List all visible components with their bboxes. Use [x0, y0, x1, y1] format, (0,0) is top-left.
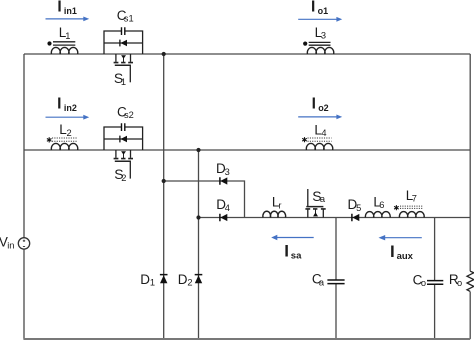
svg-text:D: D: [140, 272, 150, 287]
svg-text:s2: s2: [124, 110, 134, 120]
svg-text:I: I: [390, 242, 395, 261]
svg-text:5: 5: [356, 203, 361, 213]
svg-text:I: I: [284, 242, 289, 261]
svg-text:o: o: [457, 278, 462, 288]
svg-text:4: 4: [321, 128, 326, 138]
svg-text:7: 7: [412, 194, 417, 204]
svg-text:2: 2: [121, 173, 126, 183]
svg-text:I: I: [312, 96, 316, 113]
svg-text:2: 2: [187, 278, 192, 288]
svg-text:s1: s1: [124, 14, 134, 24]
svg-text:sa: sa: [291, 251, 302, 262]
svg-text:1: 1: [121, 77, 126, 87]
svg-text:aux: aux: [397, 251, 414, 262]
svg-text:in: in: [7, 240, 14, 250]
svg-text:3: 3: [225, 167, 230, 177]
svg-text:a: a: [319, 277, 325, 287]
svg-text:3: 3: [321, 31, 326, 41]
svg-text:I: I: [311, 0, 315, 15]
svg-text:in1: in1: [64, 6, 77, 16]
svg-text:2: 2: [67, 128, 72, 138]
svg-text:a: a: [320, 194, 326, 204]
svg-text:o2: o2: [318, 103, 329, 113]
svg-text:1: 1: [65, 31, 70, 41]
svg-text:o1: o1: [318, 6, 329, 16]
svg-text:4: 4: [225, 203, 230, 213]
svg-text:r: r: [278, 200, 281, 210]
svg-text:I: I: [57, 95, 61, 112]
svg-text:D: D: [178, 272, 188, 287]
svg-text:in2: in2: [64, 103, 77, 113]
svg-text:1: 1: [150, 278, 155, 288]
svg-text:I: I: [57, 0, 61, 16]
svg-text:o: o: [421, 278, 426, 288]
svg-text:6: 6: [379, 200, 384, 210]
